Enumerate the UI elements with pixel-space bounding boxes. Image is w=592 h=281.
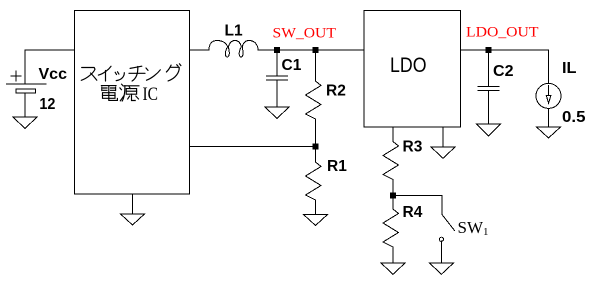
svg-text:LDO_OUT: LDO_OUT	[466, 24, 539, 40]
源	[122, 84, 124, 86]
node R3/R4 junction dot	[391, 193, 396, 198]
resistor R4	[383, 198, 399, 263]
capacitor C2	[478, 50, 499, 124]
ground	[537, 127, 561, 138]
capacitor C1	[267, 50, 288, 107]
wire LDO left pin	[392, 127, 394, 142]
ground	[431, 147, 455, 158]
text switching IC line1 スイッチング (hand-drawn strokes)	[81, 64, 181, 81]
node FB junction dot	[313, 144, 318, 149]
svg-text:SW_OUT: SW_OUT	[273, 26, 336, 42]
ground	[477, 124, 501, 136]
node SW_OUT junction dot C1	[275, 48, 280, 53]
wire	[190, 49, 210, 51]
resistor R3	[383, 142, 399, 194]
current source IL	[536, 50, 561, 127]
switch SW1	[396, 196, 455, 264]
wire SW_OUT rail	[258, 49, 364, 51]
resistor R2	[306, 50, 322, 144]
wire LDO_OUT rail	[461, 49, 549, 51]
グ	[166, 65, 171, 72]
wire feedback	[190, 146, 314, 148]
svg-text:R2: R2	[326, 83, 346, 100]
svg-text:LDO: LDO	[390, 54, 427, 77]
ッ	[115, 72, 116, 74]
svg-text:IL: IL	[562, 60, 577, 77]
box U1 switching regulator	[75, 11, 190, 195]
ground	[13, 117, 37, 129]
svg-text:C1: C1	[282, 57, 302, 74]
svg-text:IC: IC	[143, 85, 159, 105]
ground	[430, 263, 454, 274]
node SW_OUT junction dot R2	[313, 48, 318, 53]
svg-text:R3: R3	[403, 139, 423, 156]
wire U1 bottom pin	[132, 194, 134, 214]
wire	[25, 49, 75, 51]
inductor L1	[209, 41, 258, 58]
ス	[81, 68, 95, 81]
wire LDO right pin	[442, 127, 444, 147]
box U2 LDO	[364, 11, 461, 128]
svg-text:C2: C2	[493, 63, 514, 80]
チ	[130, 66, 142, 68]
ground	[265, 107, 289, 119]
ground	[304, 215, 328, 226]
電	[101, 85, 116, 87]
node LDO_OUT junction dot C2	[486, 48, 491, 53]
svg-text:0.5: 0.5	[562, 109, 586, 126]
svg-text:Vcc: Vcc	[39, 66, 68, 83]
svg-text:L1: L1	[225, 23, 243, 40]
ン	[146, 68, 148, 70]
svg-text:12: 12	[39, 96, 55, 113]
battery Vcc	[7, 50, 47, 117]
text switching IC line2 電源 (hand-drawn strokes)	[101, 84, 138, 101]
ground	[381, 263, 405, 274]
svg-text:R4: R4	[403, 204, 423, 221]
イ	[98, 66, 111, 75]
resistor R1	[306, 149, 322, 215]
ground	[121, 214, 145, 225]
svg-text:R1: R1	[327, 158, 347, 175]
